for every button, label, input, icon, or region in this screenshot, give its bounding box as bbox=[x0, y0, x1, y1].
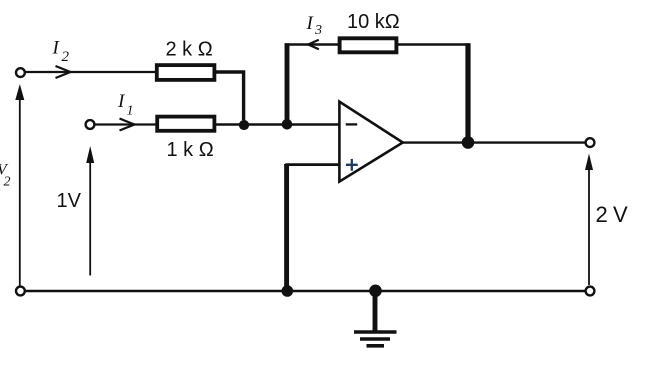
current arrow I2 bbox=[56, 66, 71, 78]
wire top feedback horizontal left of R3 bbox=[285, 43, 340, 46]
wire from R1 right through node A to inverting input bbox=[215, 123, 340, 125]
wire non-inverting input elbow bbox=[287, 165, 340, 289]
svg-text:2: 2 bbox=[4, 175, 11, 190]
label I1 bbox=[117, 91, 134, 119]
terminal bottom-left bbox=[16, 287, 25, 296]
svg-text:10 kΩ: 10 kΩ bbox=[347, 11, 400, 33]
terminal top-left bbox=[16, 68, 25, 77]
label V2 (clipped at left edge) bbox=[0, 162, 11, 190]
ground bbox=[354, 295, 397, 346]
terminal output bbox=[586, 138, 595, 147]
terminal I1 input bbox=[86, 120, 95, 129]
wire from R2 right to node A vertical drop bbox=[215, 72, 244, 120]
wire feedback left leg down to inverting node bbox=[285, 43, 290, 122]
wire from terminal I1 to resistor R1 bbox=[94, 123, 157, 125]
output node junction dot bbox=[462, 136, 475, 149]
voltage arrow V2 bbox=[15, 84, 24, 286]
current arrow I3 (points left) bbox=[308, 40, 319, 50]
svg-text:3: 3 bbox=[314, 23, 322, 38]
resistor R2 2kOhm bbox=[157, 65, 215, 80]
wire bottom rail bbox=[25, 290, 585, 293]
bottom node junction dot bbox=[282, 285, 294, 297]
svg-text:1 k Ω: 1 k Ω bbox=[167, 139, 214, 161]
svg-text:2: 2 bbox=[62, 49, 70, 65]
terminal bottom-right bbox=[586, 287, 595, 296]
svg-text:2 k Ω: 2 k Ω bbox=[166, 39, 213, 61]
label I3 bbox=[306, 13, 323, 38]
wire top feedback horizontal right of R3 bbox=[396, 43, 470, 46]
current arrow I1 bbox=[120, 119, 135, 131]
label I2 bbox=[52, 38, 70, 66]
svg-text:1V: 1V bbox=[57, 190, 82, 212]
resistor R1 1kOhm bbox=[157, 117, 214, 131]
svg-text:2 V: 2 V bbox=[596, 202, 629, 227]
wire non-inverting vertical leg bbox=[284, 164, 289, 289]
op-amp U1 bbox=[339, 102, 402, 182]
node A junction dot bbox=[239, 120, 249, 130]
ground node junction dot bbox=[369, 285, 382, 298]
voltage arrow 1V bbox=[86, 146, 94, 276]
inverting node junction dot bbox=[282, 119, 293, 130]
op-amp plus sign bbox=[346, 159, 358, 171]
wire feedback right leg down to output node bbox=[465, 43, 470, 140]
wire from terminal V2 to resistor R2 bbox=[25, 71, 156, 73]
wire op-amp output to terminal bbox=[402, 141, 586, 143]
resistor R3 10kOhm bbox=[340, 38, 397, 52]
op-amp minus sign bbox=[346, 123, 358, 125]
voltage arrow 2V bbox=[585, 154, 593, 286]
svg-text:1: 1 bbox=[127, 104, 134, 119]
